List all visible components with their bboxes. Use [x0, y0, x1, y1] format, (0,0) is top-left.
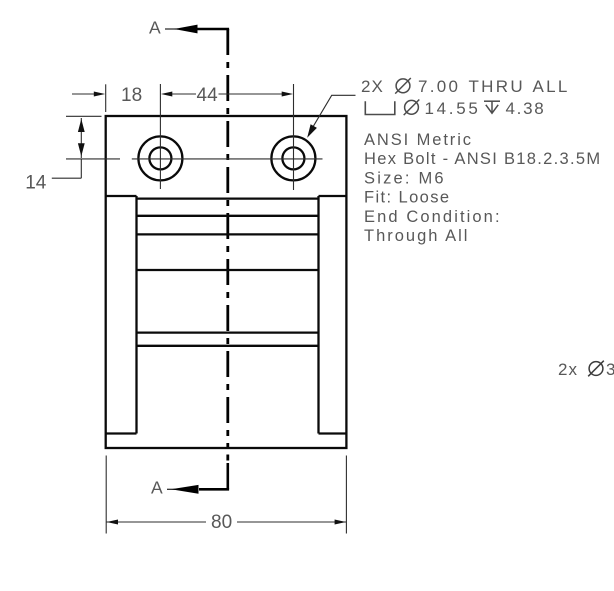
diameter symbol: [405, 100, 419, 114]
left inner rail: [135, 196, 137, 434]
dimension 18 extension line: [105, 84, 107, 112]
dimension 80 (overall width): [106, 456, 346, 534]
hole callout line 1: 2X Ø7.00 THRU ALL: [361, 77, 570, 96]
inner ledge under top block: [137, 197, 319, 199]
svg-text:Hex Bolt - ANSI B18.2.3.5M: Hex Bolt - ANSI B18.2.3.5M: [364, 150, 601, 168]
counterbored hole left (2X Ø7 THRU, cbore Ø14.55): [138, 136, 182, 180]
part outline: outer rectangle: [106, 116, 347, 448]
section cut line A-A (dash-dot centerline): [226, 29, 229, 461]
fastener note block: [364, 131, 601, 245]
crossbar edge 3: [137, 269, 319, 271]
svg-text:ANSI Metric: ANSI Metric: [364, 131, 473, 149]
crossbar edge 5: [137, 345, 319, 347]
hole centerline horizontal: [132, 158, 323, 160]
svg-text:44: 44: [197, 85, 219, 106]
top block bottom edge right strip: [319, 195, 347, 197]
svg-text:End Condition:: End Condition:: [364, 208, 502, 226]
side note 2x Ø3 (clipped at right edge): [558, 360, 614, 379]
svg-text:18: 18: [121, 85, 142, 106]
hole 1 centerline vertical / extension: [159, 84, 161, 189]
svg-text:14.55: 14.55: [425, 99, 481, 118]
svg-text:7.00 THRU ALL: 7.00 THRU ALL: [418, 77, 570, 96]
dimension 44 (hole 1 to hole 2): [197, 85, 294, 106]
section arrow A (bottom): [167, 463, 229, 494]
crossbar edge 2: [137, 233, 319, 235]
dimension 14 (top edge to hole center): [25, 116, 120, 193]
bottom ledge right: [319, 432, 347, 434]
svg-text:A: A: [149, 18, 161, 38]
crossbar edge 1: [137, 215, 319, 217]
svg-text:80: 80: [211, 512, 232, 533]
bottom ledge left: [106, 432, 137, 434]
svg-text:A: A: [151, 478, 163, 498]
diameter symbol: [396, 79, 410, 93]
top block bottom edge left strip: [106, 195, 137, 197]
depth symbol: [484, 101, 500, 113]
svg-text:4.38: 4.38: [506, 99, 546, 118]
hole callout line 2: cbore Ø14.55 depth 4.38: [365, 99, 545, 118]
dimension 18 (left edge to hole 1): [72, 85, 196, 106]
svg-text:2x: 2x: [558, 360, 578, 379]
right inner rail: [317, 196, 319, 434]
counterbore symbol: [365, 101, 395, 114]
svg-text:14: 14: [25, 173, 47, 194]
svg-text:Fit: Loose: Fit: Loose: [364, 189, 450, 207]
counterbored hole right: [271, 136, 315, 180]
svg-text:3: 3: [606, 360, 614, 379]
svg-text:2X: 2X: [361, 77, 384, 96]
crossbar edge 4: [137, 331, 319, 333]
leader from hole 2 to hole callout: [307, 95, 355, 138]
svg-text:Size: M6: Size: M6: [364, 169, 446, 187]
hole 2 centerline vertical / extension: [293, 84, 295, 190]
svg-text:Through All: Through All: [364, 227, 469, 245]
section arrow A (top): [165, 25, 229, 34]
